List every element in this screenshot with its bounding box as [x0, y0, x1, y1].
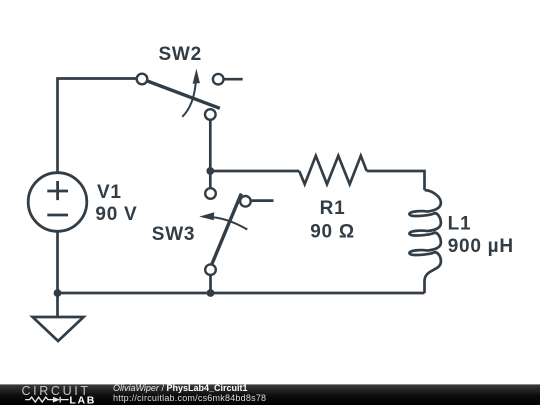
svg-text:SW2: SW2	[159, 44, 202, 65]
switch SW3 lever	[212, 194, 242, 265]
svg-text:L1: L1	[448, 213, 472, 234]
wire SW2 throw stub	[224, 78, 243, 81]
svg-text:90 V: 90 V	[95, 204, 137, 225]
svg-text:V1: V1	[97, 182, 122, 203]
wire R1 right to corner and down to L1	[367, 171, 425, 190]
switch SW2 terminal: bottom	[205, 109, 216, 120]
switch SW2 lever	[142, 79, 220, 108]
svg-text:SW3: SW3	[152, 224, 195, 245]
wire node A down to SW3 pole	[209, 171, 212, 188]
svg-text:LAB: LAB	[69, 395, 94, 405]
wire top-left: V1 top to SW2 left terminal	[58, 79, 139, 173]
node ground-left junction dot	[54, 289, 62, 297]
svg-text:OliviaWiper / PhysLab4_Circuit: OliviaWiper / PhysLab4_Circuit1	[113, 383, 247, 393]
inductor L1	[409, 190, 440, 293]
svg-text:http://circuitlab.com/cs6mk84b: http://circuitlab.com/cs6mk84bd8s78	[113, 393, 266, 403]
switch SW3 terminal: top pole	[205, 188, 216, 199]
switch SW3 arrow	[209, 217, 248, 230]
voltage source V1	[28, 173, 87, 232]
switch SW2 terminal: throw	[213, 74, 224, 85]
svg-text:R1: R1	[320, 198, 346, 219]
switch SW3 terminal: throw	[240, 196, 251, 207]
wire SW2 bottom to node A	[209, 120, 212, 171]
svg-text:90 Ω: 90 Ω	[310, 222, 355, 243]
switch SW2 arrow	[182, 79, 196, 117]
wire SW3 throw stub	[251, 199, 274, 202]
node SW3-bottom junction dot	[207, 289, 215, 297]
resistor R1	[299, 156, 367, 184]
wire bottom rail	[58, 292, 425, 295]
switch SW2 terminal: left pole	[137, 74, 148, 85]
wire node A to R1	[210, 170, 299, 173]
CircuitLab logo squiggle (resistor + diode)	[25, 397, 68, 403]
wire SW3 bottom to bottom rail	[209, 275, 212, 293]
node A junction dot	[206, 167, 214, 175]
ground	[33, 293, 84, 341]
svg-text:900 µH: 900 µH	[448, 236, 514, 257]
switch SW3 terminal: bottom	[205, 264, 216, 275]
wire V1 bottom to ground node	[56, 232, 59, 294]
